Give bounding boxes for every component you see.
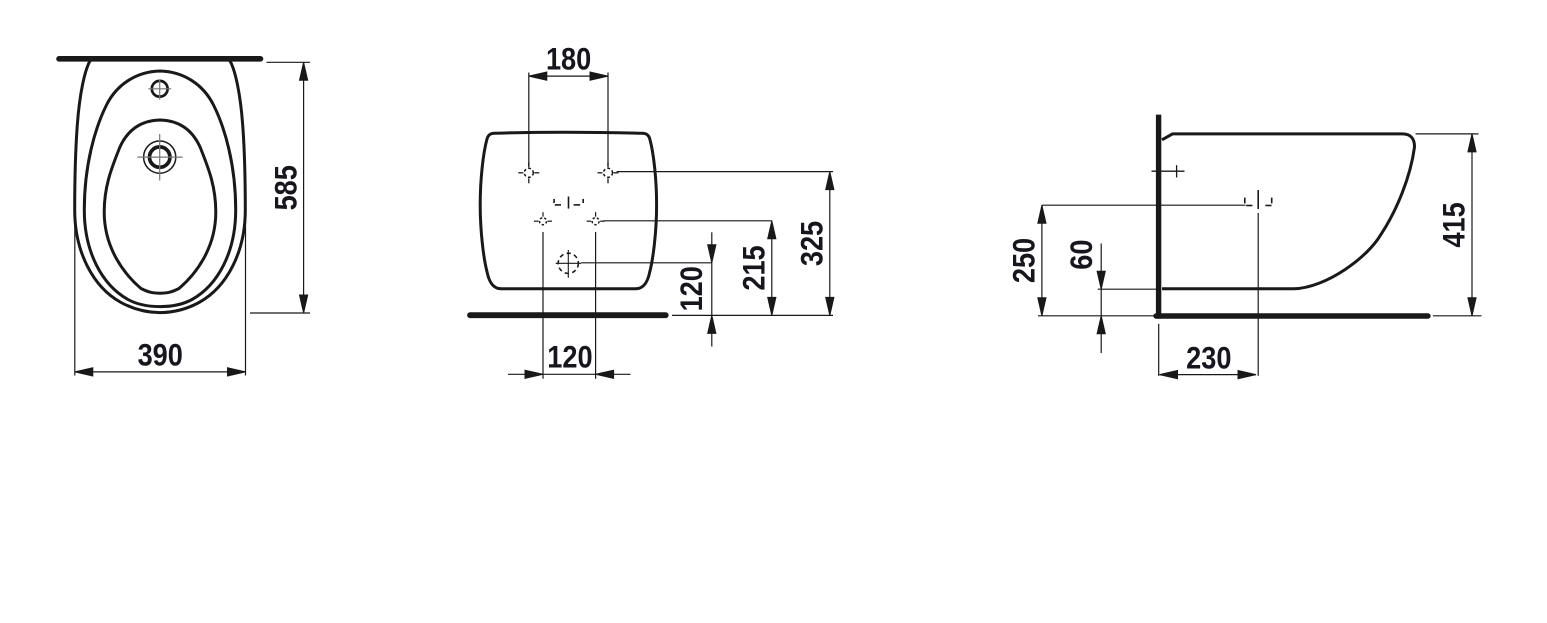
center mark — [554, 197, 583, 209]
dim 415 extension bottom — [1433, 315, 1482, 317]
dim 230 line — [1160, 374, 1257, 376]
dim 215 arrow down — [768, 297, 776, 315]
svg-text:230: 230 — [1186, 340, 1231, 375]
drain hole crosshair — [556, 250, 581, 278]
dim 390 arrow left — [75, 368, 93, 376]
svg-text:120: 120 — [674, 266, 709, 311]
dim 250 extension line top — [1042, 204, 1246, 206]
bowl oval — [104, 120, 216, 293]
bottom dim 120 extension right — [595, 232, 597, 379]
dim 325 arrow down — [826, 297, 834, 315]
dim 415 arrow down — [1468, 298, 1476, 316]
leader from middle-right hole to 215 dim — [603, 220, 772, 222]
dim 585 extension line bottom — [250, 312, 310, 314]
svg-text:180: 180 — [546, 42, 591, 77]
leader from upper-right hole to 325 dim — [617, 171, 833, 173]
dim 180 arrow right — [590, 72, 608, 80]
drain outer circle — [144, 141, 176, 173]
svg-text:325: 325 — [794, 221, 829, 266]
svg-text:415: 415 — [1437, 202, 1472, 247]
dim 180 extension left — [528, 73, 530, 167]
dim 390 extension line right — [245, 219, 247, 376]
dim 215 arrow up — [768, 221, 776, 239]
dim 415 line — [1471, 134, 1473, 316]
floor bar — [470, 312, 666, 318]
bottom dim 120 extension left — [542, 232, 544, 379]
dim 415 extension top — [1416, 133, 1479, 135]
svg-text:250: 250 — [1007, 238, 1042, 283]
dim 230 extension left (wall) — [1158, 324, 1160, 376]
dim 120 arrow up (below) — [708, 315, 716, 333]
body outline — [480, 132, 656, 288]
drain crosshair — [137, 134, 183, 181]
dim 230 arrow right — [1238, 371, 1256, 379]
dim 585 arrow up — [300, 62, 308, 80]
dim 215 line — [771, 221, 773, 316]
dim 180 line — [529, 75, 608, 77]
dim 325 line — [829, 172, 831, 316]
bidet profile — [1162, 134, 1415, 289]
svg-text:120: 120 — [547, 339, 592, 374]
dim 230 arrow left — [1160, 371, 1178, 379]
svg-text:390: 390 — [138, 338, 183, 373]
upper-right fixing hole — [598, 162, 619, 183]
dim 250 arrow up — [1038, 205, 1046, 223]
wall bar — [1156, 115, 1161, 319]
center mark extension down (230 dim right ext) — [1257, 213, 1259, 376]
dim 60 line — [1100, 244, 1102, 354]
dim 120 line (right) — [711, 232, 713, 346]
floor extension line right — [672, 314, 833, 316]
bottom dim 120 arrow (right, pointing left) — [596, 370, 614, 378]
dim 60 arrow up (below floor) — [1097, 316, 1105, 334]
dim 180 extension right — [607, 73, 609, 167]
leader from drain hole to 120 dim — [581, 262, 712, 264]
dim 390 extension line left — [74, 219, 76, 376]
tap hole circle — [152, 81, 168, 97]
floor bar — [1156, 313, 1428, 318]
middle-left hole — [534, 212, 552, 225]
wall bar (top) — [59, 56, 261, 62]
rim oval — [84, 71, 235, 307]
tap hole crosshair — [148, 79, 171, 99]
upper-left fixing hole — [518, 162, 539, 183]
outer body outline — [75, 60, 246, 313]
dim 585 extension line top — [267, 61, 311, 63]
dim 250 line — [1041, 205, 1043, 316]
dim 585 line — [303, 62, 305, 313]
dim 250 arrow down — [1038, 298, 1046, 316]
bottom dim 120 arrow (left, pointing right) — [525, 370, 543, 378]
dim 60 extension line (bottom edge extended) — [1098, 288, 1161, 290]
svg-text:215: 215 — [736, 245, 771, 290]
dim 250 / floor extension line bottom — [1038, 315, 1159, 317]
dim 390 line — [75, 371, 246, 373]
dim 585 arrow down — [300, 295, 308, 313]
drain inner ring — [150, 147, 170, 167]
svg-text:585: 585 — [269, 165, 304, 210]
svg-text:60: 60 — [1064, 240, 1099, 270]
dim 180 arrow left — [529, 72, 547, 80]
dim 60 arrow down (above bottom edge) — [1097, 271, 1105, 289]
center mark (drain axis) — [1245, 190, 1272, 209]
middle-right hole — [587, 212, 605, 225]
bottom dim 120 line — [508, 373, 631, 375]
dim 415 arrow up — [1468, 134, 1476, 152]
drain hole (large, dashed) — [558, 253, 578, 273]
dim 325 arrow up — [826, 172, 834, 190]
dim 390 arrow right — [228, 368, 246, 376]
wall fixing cross — [1152, 165, 1185, 177]
dim 120 arrow down (above) — [708, 245, 716, 263]
